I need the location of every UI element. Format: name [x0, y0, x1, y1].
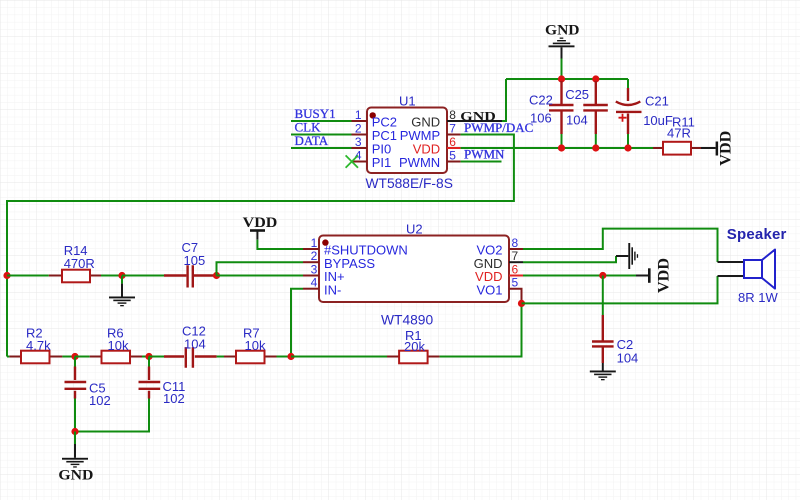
svg-text:Speaker: Speaker — [727, 226, 787, 243]
capacitor C5 102 — [65, 357, 111, 432]
junction bottom rail at C22 — [558, 144, 565, 151]
svg-text:2: 2 — [355, 122, 362, 136]
svg-text:5: 5 — [512, 276, 519, 290]
resistor R14 470R — [7, 243, 122, 282]
svg-text:20k: 20k — [404, 339, 425, 354]
pin 1 U2 #SHUTDOWN — [303, 236, 408, 258]
svg-text:GND: GND — [58, 467, 93, 483]
svg-text:PWMP/DAC: PWMP/DAC — [464, 120, 533, 135]
wire BUSY1 to U1 pin1 — [291, 120, 352, 122]
svg-text:6: 6 — [449, 135, 456, 149]
junction VDD/C2 — [599, 272, 606, 279]
svg-text:VDD: VDD — [656, 258, 673, 293]
junction R2/R6/C5 — [71, 353, 78, 360]
speaker LS1 — [718, 226, 787, 305]
resistor R1 20k — [291, 303, 522, 363]
pin 7 U2 GND — [474, 249, 523, 271]
wire pin7 to ground flag — [523, 256, 616, 262]
wire VO1 to speaker bottom — [522, 276, 718, 303]
junction bottom rail at C21 — [624, 144, 631, 151]
capacitor C22 106 — [529, 81, 574, 148]
svg-text:PWMN: PWMN — [399, 155, 440, 170]
svg-text:3: 3 — [355, 135, 362, 149]
svg-text:104: 104 — [617, 350, 639, 365]
svg-text:GND: GND — [545, 22, 580, 38]
svg-text:4: 4 — [311, 276, 318, 290]
svg-text:470R: 470R — [64, 256, 95, 271]
svg-text:DATA: DATA — [295, 133, 329, 148]
pin 8 U2 VO2 — [476, 236, 523, 258]
svg-text:U1: U1 — [399, 94, 416, 109]
wire IN- down to bottom row — [291, 289, 303, 357]
svg-text:8R 1W: 8R 1W — [738, 290, 778, 305]
pin 4 U2 IN- — [303, 276, 341, 298]
capacitor C12 104 — [149, 324, 224, 368]
capacitor C11 102 — [75, 357, 185, 432]
svg-text:1: 1 — [311, 236, 318, 250]
junction R7/IN-/R1 — [287, 353, 294, 360]
power VDD flag right of R11 — [701, 131, 735, 166]
ground GND bottom left — [58, 432, 93, 484]
svg-text:3: 3 — [311, 263, 318, 277]
junction left rail at R14 — [3, 272, 10, 279]
svg-text:PWMN: PWMN — [464, 147, 505, 162]
pin 2 U1 PC1 — [352, 122, 397, 144]
pin 8 U1 GND — [411, 108, 502, 130]
capacitor C21 10uF polarized — [616, 79, 673, 148]
svg-text:6: 6 — [512, 263, 519, 277]
pin 1 U1 PC2 — [352, 108, 397, 130]
wire VDD rail to R11 — [461, 147, 653, 149]
svg-text:104: 104 — [566, 113, 588, 128]
svg-text:5: 5 — [449, 149, 456, 163]
capacitor C2 104 — [592, 276, 638, 366]
junction C5/C11 ground node — [71, 428, 78, 435]
IC U1 WT588E/F-8S body — [366, 94, 453, 192]
junction VO1 node — [518, 300, 525, 307]
wire pin6 VDD net — [523, 275, 636, 277]
svg-text:104: 104 — [184, 337, 206, 352]
svg-text:VDD: VDD — [718, 131, 735, 166]
wire IN+ — [217, 275, 304, 277]
svg-text:WT4890: WT4890 — [381, 313, 433, 328]
ground below C2 — [590, 363, 616, 380]
pin 7 U1 PWMP — [400, 122, 461, 144]
svg-text:VO1: VO1 — [476, 282, 502, 297]
svg-text:105: 105 — [184, 253, 206, 268]
wire PWMN stub net — [461, 161, 502, 163]
wire top capacitor rail — [506, 78, 628, 80]
svg-text:1: 1 — [355, 108, 362, 122]
svg-text:10k: 10k — [108, 338, 129, 353]
svg-text:106: 106 — [530, 111, 552, 126]
svg-text:C21: C21 — [645, 94, 669, 109]
svg-text:U2: U2 — [406, 222, 423, 237]
ground at R14/C7 node — [109, 276, 135, 307]
IC U2 WT4890 body — [319, 222, 509, 328]
svg-text:2: 2 — [311, 249, 318, 263]
svg-text:102: 102 — [89, 393, 111, 408]
wire PWMP net down-left to input network — [7, 135, 514, 357]
junction top rail at C25 — [592, 75, 599, 82]
junction R14/C7/ground — [118, 272, 125, 279]
resistor R2 4.7k — [7, 326, 75, 364]
svg-text:C25: C25 — [565, 87, 589, 102]
junction top rail at C22 — [558, 75, 565, 82]
power VDD flag right of U2 — [636, 258, 673, 293]
pin 5 U1 PWMN — [399, 149, 461, 171]
svg-text:8: 8 — [449, 108, 456, 122]
svg-text:4.7k: 4.7k — [26, 338, 51, 353]
svg-text:102: 102 — [163, 391, 185, 406]
resistor R6 10k — [75, 326, 149, 364]
power VDD flag above U2 — [243, 215, 303, 249]
wire pin8 to top rail — [502, 79, 506, 121]
capacitor C25 104 — [565, 81, 608, 148]
resistor R11 47R — [653, 115, 701, 155]
capacitor C7 105 — [122, 240, 217, 288]
pin 6 U1 VDD — [413, 135, 461, 157]
svg-text:7: 7 — [449, 122, 456, 136]
svg-text:10k: 10k — [245, 338, 266, 353]
junction C7/BYPASS/IN+ — [213, 272, 220, 279]
wire CLK to U1 pin2 — [291, 134, 352, 136]
svg-text:C22: C22 — [529, 93, 553, 108]
pin 2 U2 BYPASS — [303, 249, 375, 271]
svg-text:IN-: IN- — [324, 282, 341, 297]
pin 5 U2 VO1 — [476, 276, 521, 304]
svg-text:7: 7 — [512, 249, 519, 263]
pin 3 U2 IN+ — [303, 263, 345, 285]
svg-text:WT588E/F-8S: WT588E/F-8S — [366, 176, 453, 191]
wire DATA to U1 pin3 — [291, 147, 352, 149]
svg-text:8: 8 — [512, 236, 519, 250]
ground flag right of U2 — [616, 243, 638, 269]
svg-text:47R: 47R — [667, 126, 691, 141]
svg-text:4: 4 — [355, 149, 362, 163]
junction R6/C12/C11 — [145, 353, 152, 360]
pin 4 U1 PI1 no-connect — [346, 149, 392, 171]
pin 3 U1 PI0 — [352, 135, 392, 157]
ground GND top — [545, 22, 580, 79]
resistor R7 10k — [224, 326, 291, 364]
wire VO2 to speaker top — [523, 229, 718, 262]
svg-text:PI1: PI1 — [372, 155, 392, 170]
wire BYPASS branch — [217, 262, 304, 275]
pin 6 U2 VDD — [475, 263, 523, 285]
junction bottom rail at C25 — [592, 144, 599, 151]
svg-text:VDD: VDD — [243, 215, 278, 231]
